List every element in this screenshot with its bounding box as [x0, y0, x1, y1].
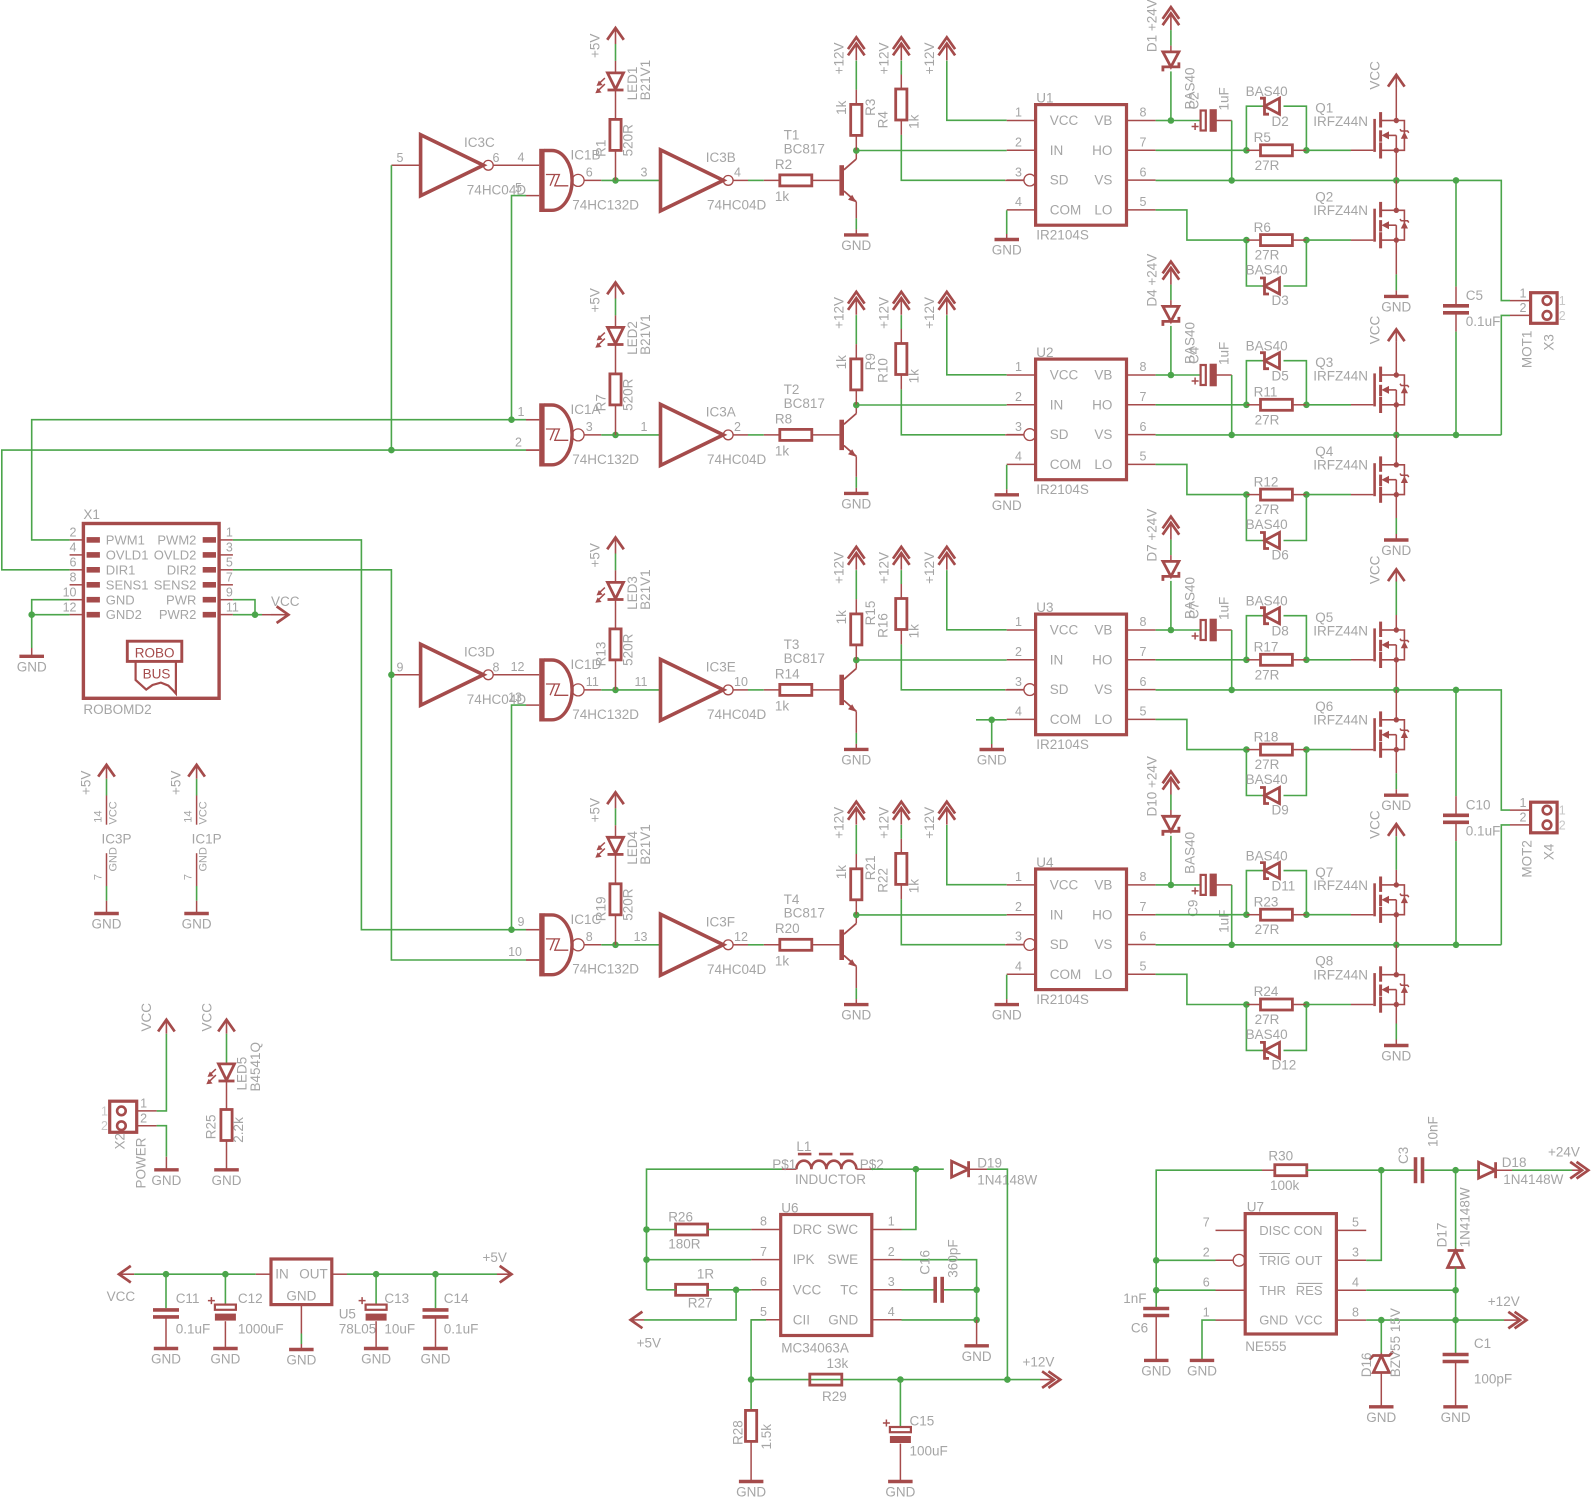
svg-text:+12V: +12V	[831, 807, 846, 839]
svg-text:27R: 27R	[1255, 757, 1280, 772]
wire	[1231, 375, 1233, 435]
wire	[601, 689, 660, 691]
svg-text:4: 4	[1015, 705, 1022, 719]
svg-text:VCC: VCC	[108, 801, 120, 824]
wire	[1246, 361, 1264, 405]
svg-text:IRFZ44N: IRFZ44N	[1313, 713, 1368, 728]
wire	[32, 614, 70, 616]
svg-text:VS: VS	[1094, 682, 1112, 697]
wire	[1231, 885, 1233, 945]
wire	[1006, 975, 1008, 999]
wire	[1246, 106, 1264, 150]
wire	[899, 1444, 901, 1482]
inverter IC3F (74HC04D)	[634, 914, 767, 977]
svg-text:7: 7	[1140, 136, 1147, 150]
wire	[1512, 1169, 1572, 1171]
svg-text:R11: R11	[1254, 385, 1278, 400]
svg-text:8: 8	[586, 930, 593, 944]
svg-text:2: 2	[1015, 900, 1022, 914]
svg-text:VCC: VCC	[107, 1289, 136, 1304]
svg-text:GND: GND	[198, 847, 210, 872]
svg-text:6: 6	[1140, 675, 1147, 689]
wire	[855, 456, 857, 477]
svg-text:GND: GND	[841, 752, 871, 767]
transistor Q2 IRFZ44N	[1313, 189, 1408, 248]
junction	[913, 1166, 920, 1173]
svg-text:DIR2: DIR2	[167, 562, 197, 577]
svg-text:R12: R12	[1254, 474, 1279, 489]
wire	[1306, 149, 1351, 151]
wire	[256, 1273, 271, 1275]
svg-text:R17: R17	[1254, 640, 1279, 655]
capacitor C11 0.1uF	[153, 1291, 210, 1337]
wire	[32, 600, 70, 648]
wire	[1380, 1320, 1382, 1355]
wire	[1395, 789, 1397, 795]
wire	[1292, 494, 1306, 496]
svg-text:1000uF: 1000uF	[238, 1322, 284, 1337]
LED LED5 (B4541Q)	[206, 1042, 262, 1092]
junction	[853, 147, 860, 154]
svg-text:MOT2: MOT2	[1520, 840, 1535, 878]
wire	[1424, 1169, 1455, 1171]
wire DIR2	[233, 570, 526, 960]
wire	[1284, 240, 1307, 286]
IC U3 IR2104S	[1007, 600, 1156, 752]
nand gate IC1D (74HC132D)	[508, 657, 639, 722]
svg-text:13: 13	[508, 690, 522, 704]
svg-text:10uF: 10uF	[384, 1322, 415, 1337]
svg-text:U4: U4	[1036, 855, 1054, 870]
+5V power symbol	[169, 765, 205, 795]
svg-text:LO: LO	[1094, 203, 1112, 218]
+24V power symbol	[1145, 254, 1180, 307]
svg-text:Q8: Q8	[1315, 954, 1333, 969]
wire	[1456, 690, 1510, 810]
wire IN	[856, 659, 1006, 661]
junction	[1168, 882, 1175, 889]
IC U1 IR2104S	[1007, 91, 1156, 243]
svg-text:9: 9	[226, 586, 233, 600]
svg-text:11: 11	[586, 675, 599, 689]
svg-text:5: 5	[515, 181, 522, 195]
wire	[733, 689, 748, 691]
svg-text:HO: HO	[1092, 907, 1112, 922]
wire	[615, 44, 617, 61]
svg-text:11: 11	[635, 675, 648, 689]
svg-text:T4: T4	[784, 892, 800, 907]
svg-text:IN: IN	[1050, 143, 1064, 158]
wire	[1216, 629, 1232, 631]
inverter IC3D (74HC04D)	[397, 644, 527, 707]
ground	[1190, 1359, 1214, 1362]
transistor T1 BC817	[784, 127, 857, 202]
junction	[1243, 147, 1250, 154]
junction	[28, 611, 35, 618]
wire	[1284, 750, 1307, 796]
ground	[364, 1347, 389, 1350]
svg-text:VS: VS	[1094, 427, 1112, 442]
resistor R9 1k	[834, 353, 878, 390]
+12V power symbol	[922, 292, 955, 329]
svg-text:3: 3	[1015, 420, 1022, 434]
svg-text:VCC: VCC	[793, 1282, 822, 1297]
svg-text:GND: GND	[151, 1173, 181, 1188]
wire VS	[1156, 434, 1456, 436]
svg-text:GND: GND	[17, 659, 47, 674]
svg-text:GND: GND	[210, 1352, 240, 1367]
svg-text:1: 1	[518, 405, 525, 419]
junction	[1243, 911, 1250, 918]
junction	[1228, 177, 1235, 184]
wire	[1395, 87, 1397, 121]
svg-text:1uF: 1uF	[1217, 597, 1232, 620]
svg-text:1: 1	[226, 526, 233, 540]
wire	[1395, 615, 1397, 630]
svg-text:GND: GND	[1381, 299, 1411, 314]
ground	[289, 1348, 314, 1351]
svg-text:13: 13	[634, 930, 648, 944]
IC U5 78L05	[271, 1259, 376, 1337]
junction	[1452, 1317, 1459, 1324]
svg-text:BUS: BUS	[143, 667, 171, 682]
wire	[900, 61, 902, 75]
svg-text:6: 6	[760, 1275, 767, 1289]
wire	[1156, 1259, 1215, 1261]
wire	[1171, 120, 1201, 122]
resistor R19 520R	[594, 884, 636, 922]
wire	[764, 434, 780, 436]
svg-text:GND: GND	[108, 847, 120, 872]
wire	[615, 345, 617, 374]
wire	[1155, 1290, 1157, 1308]
wire	[855, 915, 857, 924]
capacitor C15 100uF	[883, 1414, 948, 1459]
svg-text:OVLD1: OVLD1	[106, 548, 149, 563]
+12V power symbol	[831, 547, 864, 584]
wire	[1246, 1004, 1260, 1006]
svg-text:VB: VB	[1094, 113, 1112, 128]
svg-text:2.2k: 2.2k	[231, 1117, 246, 1143]
wire	[855, 599, 857, 614]
wire	[1246, 239, 1260, 241]
svg-text:GND: GND	[421, 1352, 451, 1367]
svg-text:U2: U2	[1036, 345, 1053, 360]
svg-text:100k: 100k	[1270, 1178, 1300, 1193]
wire	[1395, 836, 1397, 870]
wire	[900, 825, 902, 839]
svg-text:T1: T1	[784, 127, 800, 142]
ground	[888, 1480, 913, 1483]
wire	[1395, 945, 1397, 975]
svg-text:OVLD2: OVLD2	[154, 548, 197, 563]
wire PWM2	[512, 705, 527, 930]
inverter IC3C (74HC04D)	[397, 135, 527, 198]
svg-text:VB: VB	[1094, 368, 1112, 383]
svg-text:BAS40: BAS40	[1246, 772, 1288, 787]
wire	[1246, 240, 1264, 286]
junction	[1303, 237, 1310, 244]
svg-text:27R: 27R	[1255, 922, 1280, 937]
wire	[902, 1319, 977, 1321]
wire	[615, 150, 617, 180]
wire	[1395, 773, 1397, 789]
wire SD	[901, 389, 1005, 434]
capacitor C7 1uF	[1187, 597, 1232, 642]
resistor R26 180R	[668, 1210, 707, 1252]
junction	[1168, 117, 1175, 124]
svg-text:1N4148W: 1N4148W	[1458, 1187, 1473, 1247]
svg-text:C7: C7	[1187, 602, 1202, 619]
connector X2 POWER	[101, 1097, 148, 1189]
wire	[226, 1081, 228, 1110]
svg-text:OUT: OUT	[299, 1267, 328, 1282]
svg-text:U3: U3	[1036, 600, 1053, 615]
junction	[1243, 402, 1250, 409]
wire	[1216, 884, 1232, 886]
junction	[1452, 1287, 1459, 1294]
ground	[739, 1480, 764, 1483]
svg-text:11: 11	[226, 600, 239, 614]
svg-text:10: 10	[734, 675, 748, 689]
svg-text:10: 10	[63, 586, 77, 600]
wire	[526, 959, 539, 961]
wire	[601, 179, 660, 181]
svg-text:+12V: +12V	[922, 807, 937, 839]
svg-text:+5V: +5V	[588, 543, 603, 567]
svg-text:D8: D8	[1272, 624, 1289, 639]
diode D3 BAS40	[1246, 263, 1289, 309]
svg-text:R28: R28	[731, 1420, 746, 1445]
svg-text:IR2104S: IR2104S	[1036, 482, 1089, 497]
wire	[526, 419, 539, 421]
svg-text:U7: U7	[1247, 1200, 1264, 1215]
svg-text:7: 7	[1140, 645, 1147, 659]
+24V power symbol	[1548, 1144, 1588, 1178]
wire	[855, 711, 857, 733]
svg-text:R29: R29	[822, 1389, 847, 1404]
svg-text:6: 6	[586, 166, 593, 180]
zener diode D16 BZV55 15V	[1359, 1308, 1403, 1377]
svg-text:2: 2	[1559, 818, 1566, 832]
svg-text:+5V: +5V	[588, 34, 603, 58]
ground	[964, 1344, 989, 1347]
+24V power symbol	[1145, 756, 1180, 816]
svg-text:SD: SD	[1050, 937, 1069, 952]
svg-text:74HC132D: 74HC132D	[572, 962, 639, 977]
wire	[900, 584, 902, 599]
svg-text:PWM1: PWM1	[106, 533, 145, 548]
VCC power symbol	[139, 1003, 175, 1034]
wire	[1395, 180, 1397, 210]
wire	[615, 915, 617, 945]
wire	[1351, 914, 1373, 916]
ground	[995, 238, 1020, 241]
wire	[1306, 494, 1351, 496]
ground	[154, 1347, 178, 1350]
wire	[1246, 149, 1260, 151]
svg-text:3: 3	[226, 541, 233, 555]
wire	[196, 779, 198, 796]
wire	[1231, 630, 1233, 690]
junction	[733, 1287, 740, 1294]
wire	[855, 966, 857, 988]
wire	[1455, 180, 1457, 286]
LED LED2 (B21V1)	[595, 314, 653, 355]
ground	[1443, 1405, 1468, 1408]
+12V power symbol	[876, 37, 909, 74]
svg-text:IN: IN	[1050, 397, 1064, 412]
wire	[300, 1305, 302, 1334]
svg-text:Q6: Q6	[1315, 699, 1333, 714]
svg-text:12: 12	[734, 930, 748, 944]
svg-text:BAS40: BAS40	[1246, 339, 1288, 354]
svg-text:+12V: +12V	[1023, 1355, 1055, 1370]
wire	[31, 648, 33, 656]
ground	[1384, 794, 1409, 797]
svg-text:IRFZ44N: IRFZ44N	[1313, 114, 1368, 129]
svg-text:IR2104S: IR2104S	[1036, 228, 1089, 243]
svg-text:D11: D11	[1272, 878, 1296, 893]
svg-text:VCC: VCC	[1368, 315, 1383, 344]
wire	[855, 315, 857, 344]
wire	[615, 808, 617, 825]
wire	[615, 570, 617, 582]
junction	[1243, 237, 1250, 244]
svg-text:8: 8	[1140, 106, 1147, 120]
ground	[844, 233, 869, 236]
transistor Q4 IRFZ44N	[1313, 444, 1408, 503]
svg-text:GND: GND	[736, 1485, 766, 1500]
junction	[897, 1376, 904, 1383]
junction	[1453, 687, 1460, 694]
svg-text:5: 5	[1140, 450, 1147, 464]
svg-text:3: 3	[586, 420, 593, 434]
wire	[1171, 629, 1201, 631]
svg-text:GND: GND	[962, 1349, 992, 1364]
svg-text:IN: IN	[1050, 907, 1064, 922]
svg-text:4: 4	[70, 541, 77, 555]
svg-text:VB: VB	[1094, 878, 1112, 893]
junction	[1153, 1287, 1160, 1294]
svg-text:4: 4	[734, 166, 741, 180]
svg-text:+12V: +12V	[831, 297, 846, 329]
wire	[750, 1441, 752, 1481]
svg-text:R7: R7	[594, 394, 609, 411]
ground	[1384, 295, 1409, 298]
svg-text:R14: R14	[775, 666, 800, 681]
wire	[1395, 290, 1397, 296]
wire	[615, 825, 617, 837]
svg-text:BAS40: BAS40	[1246, 263, 1288, 278]
svg-text:2: 2	[101, 1119, 108, 1133]
wire	[1292, 1004, 1306, 1006]
wire	[1156, 629, 1171, 631]
transistor T4 BC817	[784, 892, 857, 967]
junction	[643, 1226, 650, 1233]
wire	[855, 202, 857, 219]
svg-text:C15: C15	[910, 1414, 935, 1429]
wire	[615, 554, 617, 571]
svg-text:1: 1	[888, 1215, 895, 1229]
wire	[1455, 1170, 1457, 1250]
wire	[1366, 1289, 1455, 1291]
svg-text:6: 6	[1140, 930, 1147, 944]
resistor R10 1k	[875, 344, 921, 384]
wire	[1455, 690, 1457, 796]
wire	[748, 944, 764, 946]
wire PWM1	[32, 420, 526, 540]
resistor R17 27R	[1254, 640, 1293, 683]
wire	[1170, 555, 1172, 561]
wire	[855, 570, 857, 599]
wire	[1395, 240, 1397, 274]
svg-text:78L05: 78L05	[339, 1322, 377, 1337]
junction	[748, 1376, 755, 1383]
svg-text:C1: C1	[1474, 1336, 1491, 1351]
transistor Q6 IRFZ44N	[1313, 699, 1408, 758]
wire	[391, 164, 420, 166]
svg-text:BC817: BC817	[784, 906, 825, 921]
svg-text:0.1uF: 0.1uF	[1466, 314, 1501, 329]
wire	[526, 449, 539, 451]
svg-text:MC34063A: MC34063A	[781, 1341, 849, 1356]
inverter IC3B (74HC04D)	[641, 150, 767, 213]
wire IN	[856, 150, 1006, 152]
wire	[751, 1320, 766, 1380]
junction	[1303, 657, 1310, 664]
svg-text:7: 7	[1140, 390, 1147, 404]
svg-text:8: 8	[493, 660, 500, 674]
wire	[1456, 1169, 1479, 1171]
wire	[750, 1380, 752, 1411]
svg-text:0.1uF: 0.1uF	[1466, 824, 1501, 839]
wire	[584, 944, 601, 946]
capacitor C2 1uF	[1187, 87, 1232, 132]
resistor R21 1k	[834, 856, 878, 900]
svg-text:+12V: +12V	[831, 552, 846, 584]
svg-text:NE555: NE555	[1245, 1339, 1286, 1354]
junction	[988, 717, 995, 724]
svg-text:VS: VS	[1094, 173, 1112, 188]
+5V power symbol	[588, 283, 624, 313]
wire	[900, 630, 902, 645]
svg-text:14: 14	[93, 811, 105, 823]
svg-text:1: 1	[1559, 804, 1566, 818]
svg-text:VCC: VCC	[1368, 810, 1383, 839]
inverter IC3E (74HC04D)	[635, 659, 767, 722]
wire	[969, 1168, 987, 1170]
wire	[1351, 239, 1373, 241]
svg-text:10nF: 10nF	[1426, 1116, 1441, 1147]
wire IN	[856, 404, 1006, 406]
diode D11 BAS40	[1246, 849, 1296, 894]
svg-text:GND: GND	[1381, 798, 1411, 813]
svg-text:D6: D6	[1272, 548, 1289, 563]
svg-text:VCC: VCC	[199, 1003, 214, 1032]
svg-text:B21V1: B21V1	[638, 824, 653, 865]
wire	[1395, 660, 1397, 690]
svg-text:6: 6	[493, 151, 500, 165]
wire	[1246, 871, 1264, 915]
svg-text:VCC: VCC	[1050, 623, 1079, 638]
wire	[1246, 494, 1260, 496]
+5V power symbol	[588, 28, 624, 58]
svg-text:IC3D: IC3D	[464, 645, 495, 660]
VCC power symbol	[1368, 555, 1405, 584]
junction	[1303, 491, 1310, 498]
svg-text:CON: CON	[1294, 1223, 1323, 1238]
